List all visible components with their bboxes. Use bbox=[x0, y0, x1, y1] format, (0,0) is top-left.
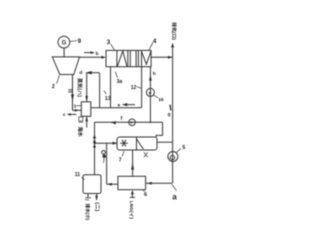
svg-text:LNG(イ): LNG(イ) bbox=[128, 201, 134, 220]
pump 14 bbox=[129, 119, 136, 126]
svg-text:e: e bbox=[118, 102, 121, 107]
arrowhead left on vaporizer outlet bbox=[107, 183, 111, 186]
label 13 bbox=[104, 91, 111, 102]
wire heat exchanger outlet to right riser bbox=[151, 56, 173, 58]
svg-text:1: 1 bbox=[74, 103, 77, 109]
turbine 2 bbox=[52, 57, 79, 75]
right riser wire bbox=[172, 44, 174, 183]
generator G circle bbox=[58, 36, 70, 48]
wire pump 16 branch bbox=[149, 67, 151, 123]
svg-text:9: 9 bbox=[78, 38, 82, 45]
label 6 bbox=[143, 190, 147, 198]
svg-text:13: 13 bbox=[105, 96, 111, 102]
label 1 bbox=[74, 103, 82, 109]
arrowhead left on pump line bbox=[111, 121, 116, 124]
svg-text:(ニ): (ニ) bbox=[93, 202, 100, 211]
svg-text:h: h bbox=[153, 71, 156, 76]
heat exchanger divider bbox=[128, 50, 131, 66]
svg-text:d: d bbox=[79, 70, 82, 76]
svg-text:海水: 海水 bbox=[76, 127, 84, 138]
wire riser to heat exchanger 3 bbox=[110, 67, 112, 108]
svg-text:5: 5 bbox=[182, 145, 185, 151]
pump 5 bbox=[168, 152, 178, 162]
heat exchanger block 3/4 outline bbox=[106, 50, 151, 66]
drain box under condenser bbox=[79, 117, 83, 121]
tank 11 bbox=[83, 175, 101, 194]
zigzag into vessel 7 top bbox=[156, 122, 162, 137]
up arrowhead 3 on riser bbox=[93, 144, 96, 148]
flow arrow e bbox=[118, 102, 135, 107]
wire d riser bbox=[99, 73, 101, 108]
arrowhead into heat exchanger bbox=[101, 56, 105, 59]
down arrowhead on exhaust bbox=[71, 94, 74, 102]
down arrowhead into condenser top bbox=[85, 96, 88, 101]
flow arrow c bbox=[63, 112, 76, 117]
valve 8 symbol bbox=[102, 151, 106, 163]
svg-text:4: 4 bbox=[153, 38, 157, 45]
arrowhead into vessel 7 bbox=[113, 142, 118, 145]
flow arrow g bbox=[168, 105, 172, 117]
wire vaporizer 6 left outlet bbox=[107, 183, 118, 185]
label 9 for generator bbox=[70, 38, 82, 45]
wire steam drop to condenser top bbox=[86, 73, 88, 102]
label 7 bbox=[119, 151, 125, 163]
svg-text:b: b bbox=[96, 51, 99, 56]
seawater stub with up arrow bbox=[85, 116, 88, 127]
label 11 bbox=[75, 172, 85, 179]
svg-text:排気(ロ): 排気(ロ) bbox=[171, 22, 178, 40]
label 3a bbox=[115, 72, 122, 85]
vessel 7 internal divider bbox=[137, 137, 144, 149]
up arrowhead h bbox=[149, 75, 152, 81]
wire turbine exhaust down bbox=[72, 75, 74, 111]
label a leader bbox=[172, 184, 177, 191]
svg-text:7: 7 bbox=[119, 157, 122, 163]
wire bottom right corner to vaporizer 6 bbox=[146, 182, 173, 184]
pump 16 bbox=[146, 88, 154, 96]
wire generator shaft bbox=[63, 48, 65, 57]
drain stub left under tank 11 bbox=[85, 194, 91, 201]
spray star in vessel 7 bbox=[120, 140, 128, 147]
svg-text:2: 2 bbox=[52, 84, 55, 90]
riser up arrowhead bbox=[131, 163, 134, 170]
up arrowhead 2 on riser bbox=[93, 139, 96, 143]
exhaust up arrowhead bbox=[171, 43, 174, 48]
vessel 7 bbox=[117, 137, 157, 150]
svg-text:16: 16 bbox=[158, 97, 164, 103]
heat exchanger 3 coil bbox=[117, 50, 127, 66]
svg-text:3: 3 bbox=[107, 39, 111, 46]
svg-text:3a: 3a bbox=[117, 79, 123, 85]
heat exchanger 4 coil bbox=[136, 50, 151, 66]
wire turbine to heat exchanger bbox=[79, 56, 102, 58]
svg-text:11: 11 bbox=[75, 172, 81, 178]
label 3 bbox=[107, 39, 115, 51]
arrowhead at right riser bbox=[168, 56, 172, 59]
junction dot riser bbox=[94, 142, 96, 144]
wire tank 11 riser bbox=[94, 122, 96, 175]
svg-text:排水(ホ): 排水(ホ) bbox=[84, 204, 91, 221]
label 5 bbox=[177, 145, 186, 153]
up arrowhead 1 on riser bbox=[93, 134, 96, 138]
svg-text:g: g bbox=[168, 111, 171, 116]
svg-text:12: 12 bbox=[131, 85, 137, 91]
condenser 1 bbox=[81, 102, 91, 117]
svg-text:6: 6 bbox=[144, 192, 147, 198]
svg-text:c: c bbox=[63, 112, 66, 117]
flow arrow b bbox=[84, 51, 99, 56]
seawater out stub under tank 11 bbox=[95, 194, 98, 201]
arrowhead into vaporizer right side bbox=[147, 182, 151, 185]
arrowhead into condenser left bbox=[75, 109, 79, 112]
label 12 bbox=[131, 85, 142, 91]
label 16 bbox=[154, 95, 164, 103]
junction dot bbox=[150, 121, 152, 123]
pipe break ticks bbox=[68, 90, 72, 92]
wire condenser right outlet bbox=[91, 107, 142, 109]
LNG inlet stub bbox=[130, 190, 135, 198]
svg-text:G: G bbox=[62, 40, 67, 46]
x mark under vessel 7 bbox=[144, 152, 148, 157]
wire vaporizer 6 to vessel 7 riser bbox=[132, 150, 134, 176]
wire riser to heat exchanger 4 bbox=[141, 67, 143, 108]
wire into condenser 1 left bbox=[73, 109, 82, 111]
label 4 bbox=[149, 38, 157, 51]
svg-text:蒸気(ハ): 蒸気(ハ) bbox=[76, 77, 84, 97]
flow arrow d bbox=[79, 70, 99, 76]
wire pump 14 line bbox=[95, 121, 163, 123]
vaporizer 6 bbox=[118, 176, 146, 189]
wire vessel 7 right outlet bbox=[157, 141, 172, 143]
wire vessel 7 left inlet bbox=[95, 142, 118, 144]
label 2 bbox=[52, 76, 60, 91]
svg-text:a: a bbox=[172, 192, 177, 201]
svg-text:P: P bbox=[149, 91, 152, 96]
wire valve riser bbox=[106, 143, 108, 184]
